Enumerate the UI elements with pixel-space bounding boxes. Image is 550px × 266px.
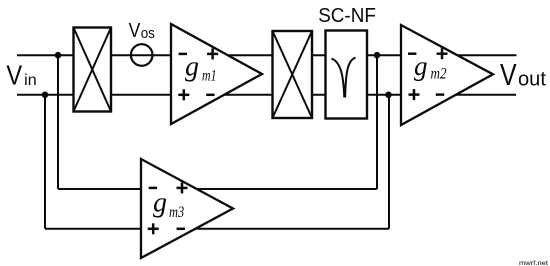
gm3 bottom minus — [177, 228, 185, 231]
wire: feedforward bottom horizontal — [45, 228, 389, 230]
svg-text:V: V — [500, 57, 517, 92]
gm1 bottom plus — [178, 89, 189, 100]
gm2 top plus — [437, 48, 448, 59]
op-amp gm1 triangle — [171, 24, 262, 124]
wire: feedforward top horizontal — [58, 188, 377, 190]
SC-NF label — [318, 5, 376, 27]
svg-text:m1: m1 — [202, 68, 217, 85]
wire: right vertical tap to top rail — [376, 55, 378, 189]
wire: right vertical tap to bottom rail — [388, 95, 390, 229]
wire: bottom differential input rail — [17, 94, 516, 96]
gm2 top minus — [408, 52, 416, 55]
svg-text:m2: m2 — [431, 65, 447, 82]
offset source Vos circle — [131, 44, 153, 66]
svg-text:g: g — [185, 52, 199, 83]
svg-text:g: g — [414, 51, 428, 81]
svg-text:V: V — [129, 19, 141, 42]
gm1 value label — [185, 52, 217, 85]
gm1 top plus — [207, 48, 218, 59]
chopper CH1 input chopper box — [74, 28, 112, 112]
wire: left vertical tap from top rail — [57, 55, 59, 189]
svg-text:SC-NF: SC-NF — [318, 5, 376, 27]
node: junction bottom rail right — [385, 92, 392, 99]
node: junction top rail right — [374, 52, 381, 59]
gm3 value label — [153, 187, 184, 221]
svg-text:g: g — [153, 187, 167, 218]
wire: top differential input rail — [17, 54, 517, 56]
svg-text:out: out — [518, 68, 546, 91]
gm1 top minus — [179, 53, 187, 56]
watermark — [519, 260, 548, 266]
svg-text:in: in — [24, 72, 37, 89]
Vout label — [500, 57, 546, 92]
Vos label — [129, 19, 155, 42]
gm2 bottom minus — [436, 93, 444, 96]
gm2 bottom plus — [409, 89, 420, 100]
gm2 value label — [414, 51, 447, 83]
wire: left vertical tap from bottom rail — [44, 95, 46, 229]
op-amp gm2 triangle — [401, 25, 493, 125]
gm3 top minus — [149, 187, 157, 190]
op-amp gm3 feedforward triangle — [141, 159, 233, 258]
SC-NF notch filter box — [326, 31, 368, 119]
Vin label — [6, 59, 36, 90]
chopper CH2 output chopper box — [273, 31, 313, 118]
gm1 bottom minus — [206, 94, 214, 97]
node: junction bottom rail left — [42, 92, 49, 99]
svg-text:V: V — [6, 59, 22, 90]
svg-text:os: os — [141, 25, 155, 42]
svg-text:mwrf.net: mwrf.net — [519, 260, 548, 266]
node: junction top rail left — [55, 52, 62, 59]
gm3 bottom plus — [148, 223, 159, 234]
svg-text:m3: m3 — [169, 204, 184, 221]
gm3 top plus — [177, 182, 188, 193]
